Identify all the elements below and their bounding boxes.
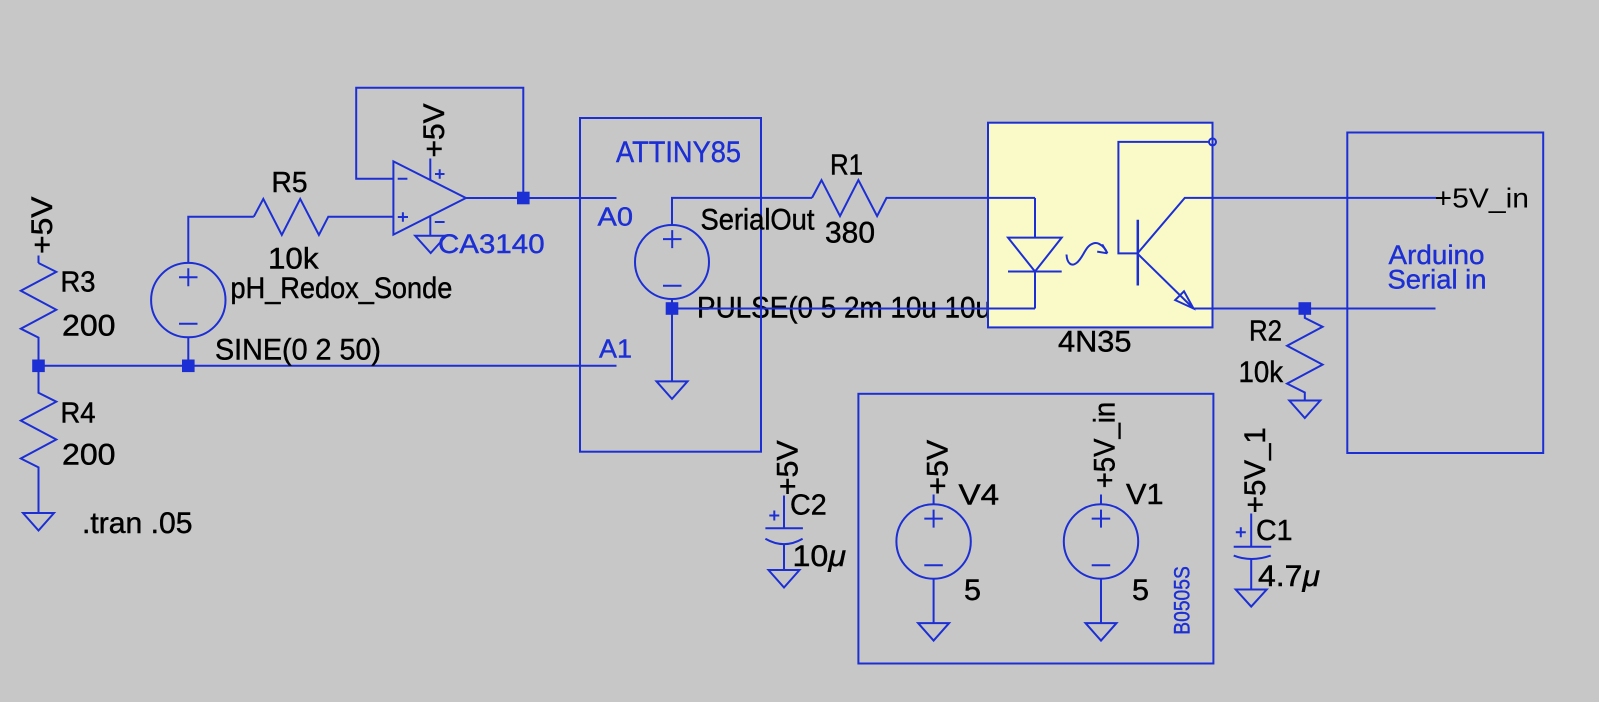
ground (V4) [918,623,949,641]
svg-text:SINE(0 2 50): SINE(0 2 50) [215,334,381,367]
feedback wire [356,88,523,198]
V4 leads [933,495,935,624]
resistor R1 [812,180,1035,216]
svg-text:V1: V1 [1126,479,1164,511]
junction op-amp output [517,192,530,205]
LED cathode lead [1034,272,1036,309]
svg-text:4N35: 4N35 [1058,326,1132,359]
op-amp U-CA3140 triangle [393,161,466,234]
svg-text:ATTINY85: ATTINY85 [616,136,741,169]
output wire to A0 [466,197,617,199]
wire opto emitter to Arduino serial [1213,308,1436,310]
svg-text:R3: R3 [61,267,96,299]
svg-text:A1: A1 [599,333,632,363]
svg-text:+5V: +5V [418,104,451,158]
svg-text:200: 200 [62,310,116,343]
svg-text:200: 200 [62,439,116,472]
svg-text:R2: R2 [1249,316,1282,348]
SINE plus mark [179,268,198,286]
svg-text:C1: C1 [1256,515,1293,547]
svg-text:5: 5 [964,574,981,607]
svg-text:10k: 10k [268,243,320,276]
svg-text:V4: V4 [959,480,1000,512]
resistor R3 [21,263,57,366]
voltage source V4 circle [896,504,970,578]
svg-text:+5V: +5V [772,440,805,495]
ATTINY85 box [580,118,761,452]
voltage source V-SINE circle [151,263,225,337]
junction SerialOut bottom [666,302,679,315]
wire bottom rail A1 [39,365,617,367]
junction R3/R4 rail [32,360,45,373]
capacitor C2 [765,496,803,529]
svg-text:+5V: +5V [921,440,954,495]
C1 polarity + [1236,527,1246,537]
squiggle light arrow [1067,243,1108,265]
svg-text:10k: 10k [1239,356,1284,389]
svg-text:B0505S: B0505S [1169,566,1194,635]
wire opto collector to Arduino +5V_in [1213,197,1437,199]
optocoupler U-4N35 yellow body [988,123,1213,328]
svg-text:10μ: 10μ [793,540,847,573]
base wire to NC pin [1118,142,1209,254]
ground (C1) [1236,590,1267,607]
svg-text:.tran .05: .tran .05 [82,507,193,540]
wire SINE top to R5 [188,217,254,366]
LED triangle [1008,238,1062,272]
wire SerialOut- to LED cathode [672,308,1035,310]
resistor R2 [1287,309,1323,401]
svg-text:+5V_1: +5V_1 [1239,427,1272,513]
op-amp input marks [398,179,408,222]
ground (V1) [1086,623,1117,641]
LED anode lead [1034,198,1036,238]
resistor R5 [254,199,394,235]
svg-text:5: 5 [1132,574,1149,607]
SerialOut wires [672,198,812,225]
junction SINE bottom [182,360,195,373]
phototransistor base bar [1137,220,1140,286]
V1 leads [1100,495,1102,624]
svg-text:+5V_in: +5V_in [1089,402,1122,489]
emitter with arrowhead [1138,254,1194,309]
svg-text:4.7μ: 4.7μ [1258,560,1320,593]
svg-text:R5: R5 [272,167,308,199]
resistor R4 [21,366,57,513]
svg-text:R4: R4 [61,397,96,429]
svg-text:380: 380 [825,217,875,250]
SINE minus mark [179,323,198,325]
capacitor C1 [1234,514,1272,547]
ground (R4) [23,513,54,531]
ground (R2) [1289,401,1320,419]
NC pin circle [1209,138,1216,145]
svg-text:CA3140: CA3140 [438,229,545,259]
Arduino box [1347,133,1543,454]
collector [1138,198,1213,253]
B0505S box [858,394,1213,664]
op-amp supply pins [430,159,444,236]
wire +5V flag to R3 [38,256,40,264]
ground (SerialOut) [657,381,688,399]
svg-text:pH_Redox_Sonde: pH_Redox_Sonde [231,272,453,305]
svg-text:A0: A0 [598,201,634,231]
svg-text:+5V: +5V [26,197,59,255]
LED cathode bar [1008,271,1062,273]
ground (C2) [769,570,800,588]
voltage source V-SerialOut circle [635,225,709,299]
ground (op-amp V-) [415,236,446,253]
svg-text:SerialOut: SerialOut [701,204,816,237]
voltage source V1 circle [1064,504,1138,578]
svg-text:Serial in: Serial in [1388,265,1487,295]
C2 polarity + [769,511,779,521]
junction R2 top [1299,302,1312,315]
svg-text:+5V_in: +5V_in [1435,183,1530,214]
svg-text:R1: R1 [830,150,863,182]
